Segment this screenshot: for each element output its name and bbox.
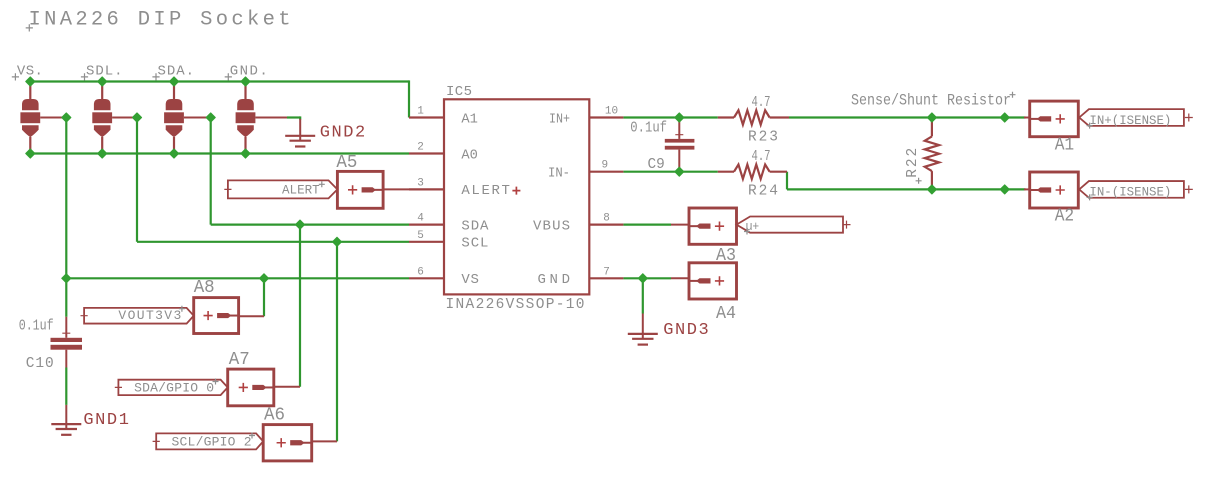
resistor R23 — [718, 110, 789, 124]
pin ALERT active marker + — [512, 187, 520, 195]
junction (245.5,153.5) — [241, 149, 250, 158]
svg-text:10: 10 — [605, 106, 618, 118]
svg-text:A8: A8 — [194, 278, 215, 298]
junction (642.8,278.3) — [638, 274, 647, 283]
wire SDA pin4 — [211, 224, 409, 226]
wire R24 elbow — [786, 172, 788, 190]
connector A8 — [194, 298, 239, 334]
pin 3 stub — [409, 188, 444, 190]
wire bottom rail to A0 — [30, 152, 409, 154]
connector A3 — [689, 208, 737, 244]
flag SDA/GPIO 0 outline — [118, 380, 227, 395]
wire C10 to GND1 — [65, 368, 67, 405]
capacitor C9 — [665, 118, 695, 172]
junction (1004.7,189.4) — [1000, 185, 1009, 194]
svg-text:R23: R23 — [748, 129, 778, 145]
svg-text:A7: A7 — [229, 350, 250, 370]
wire VS vertical — [65, 118, 67, 279]
junction (931.9,189.4) — [927, 185, 936, 194]
flag VOUT3V3 outline — [84, 308, 194, 324]
flag ALERT outline — [228, 180, 338, 198]
wire GND2 stub — [287, 116, 300, 118]
pin 4 stub — [409, 224, 444, 226]
wire pin8 VBUS — [623, 224, 671, 226]
pin 6 stub — [409, 277, 444, 279]
connector A1 — [1030, 101, 1079, 137]
junction (210.7,117.5) — [206, 113, 215, 122]
svg-text:GND2: GND2 — [320, 123, 366, 142]
svg-text:1: 1 — [417, 106, 424, 118]
wire A5 to pin3 — [383, 188, 409, 190]
wire R23 to A1 — [789, 116, 1026, 118]
connector A7 — [228, 369, 274, 406]
svg-text:2: 2 — [417, 142, 424, 154]
wire pin10 to C9 — [623, 116, 717, 118]
stub VS to junction — [40, 117, 66, 119]
svg-text:C9: C9 — [648, 157, 665, 173]
svg-text:Sense/Shunt Resistor: Sense/Shunt Resistor — [851, 91, 1011, 109]
pin 2 stub — [409, 152, 444, 154]
svg-text:5: 5 — [417, 230, 424, 242]
cross SDA flag — [115, 384, 122, 391]
svg-text:A5: A5 — [336, 153, 357, 173]
stub SDL to junction — [112, 117, 137, 119]
wire R24 to A2 — [787, 188, 1026, 190]
junction (931.9,117.5) — [927, 113, 936, 122]
origin cross SDA. — [152, 73, 159, 80]
svg-text:4.7: 4.7 — [752, 149, 771, 165]
pin 1 stub — [409, 116, 444, 118]
origin cross GND. — [225, 73, 232, 80]
title origin cross — [26, 24, 33, 31]
cross ALERT flag — [224, 186, 231, 193]
svg-text:VOUT3V3: VOUT3V3 — [118, 308, 181, 323]
wire into A1 — [1024, 117, 1030, 119]
wire to pin1 — [408, 80, 410, 117]
ground GND2 — [285, 119, 315, 147]
connector A2 — [1030, 172, 1079, 208]
svg-text:A2: A2 — [1055, 207, 1075, 227]
svg-text:ALERT: ALERT — [461, 183, 510, 199]
socket pin VS. — [20, 82, 40, 154]
wire A3 stub — [671, 224, 689, 226]
svg-text:7: 7 — [603, 266, 610, 278]
wire SCL pin5 — [137, 241, 409, 243]
wire pin7 GND — [623, 277, 671, 279]
wire A7 out — [274, 386, 300, 388]
junction (679.3,171.7) — [675, 167, 684, 176]
resistor R22 — [925, 118, 939, 190]
junction (66.3,278.3) — [62, 274, 71, 283]
svg-text:0.1uf: 0.1uf — [630, 121, 667, 137]
junction (174,153.5) — [169, 149, 178, 158]
socket pin SDA. — [164, 82, 184, 154]
wire SCL vertical from SDL — [136, 118, 138, 242]
junction (264,278.3) — [259, 274, 268, 283]
junction (30.3,81.5) — [26, 77, 35, 86]
wire into A2 — [1024, 188, 1030, 190]
svg-text:INA226 DIP Socket: INA226 DIP Socket — [29, 9, 291, 32]
connector A6 — [263, 425, 312, 461]
junction (102.2,153.5) — [98, 149, 107, 158]
svg-text:IN-: IN- — [548, 166, 570, 182]
wire pin9 to C9 — [623, 171, 717, 173]
svg-text:SDA/GPIO 0: SDA/GPIO 0 — [134, 381, 214, 396]
cross u+ pre — [744, 229, 750, 235]
svg-text:4.7: 4.7 — [752, 95, 771, 111]
svg-text:SCL/GPIO 2: SCL/GPIO 2 — [172, 434, 252, 449]
wire GND3 vertical — [642, 278, 644, 313]
origin cross SDL. — [81, 73, 88, 80]
stub SDA to junction — [184, 117, 211, 119]
ground GND1 — [51, 405, 81, 435]
svg-text:A0: A0 — [461, 147, 478, 163]
flag u+ outline — [737, 217, 844, 233]
svg-text:INA226VSSOP-10: INA226VSSOP-10 — [446, 297, 585, 313]
svg-text:SDA: SDA — [461, 218, 489, 234]
svg-text:6: 6 — [417, 266, 424, 278]
junction (30.3,153.5) — [26, 149, 35, 158]
wire A8 vertical — [263, 278, 265, 316]
junction (137,117.5) — [132, 113, 141, 122]
svg-text:IN-(ISENSE): IN-(ISENSE) — [1089, 185, 1171, 200]
junction (245.5,81.5) — [241, 77, 250, 86]
svg-text:R24: R24 — [748, 183, 778, 199]
cross SCL sup — [249, 433, 255, 439]
connector A4 — [689, 263, 737, 299]
origin cross VS. — [12, 73, 19, 80]
svg-text:4: 4 — [417, 213, 424, 225]
cross IN- flag right — [1185, 185, 1193, 193]
svg-text:VS: VS — [461, 272, 479, 288]
wire VS rail pin6 — [66, 277, 409, 279]
svg-text:VBUS: VBUS — [533, 218, 570, 234]
svg-text:0.1uf: 0.1uf — [19, 319, 54, 335]
flag IN+(ISENSE) outline — [1079, 109, 1184, 126]
cross R22 — [916, 178, 922, 184]
pin 10 stub — [589, 116, 623, 118]
pin 7 stub — [589, 277, 623, 279]
svg-text:A4: A4 — [716, 304, 736, 324]
capacitor C10 — [51, 317, 83, 368]
cross IN+ pre — [1087, 123, 1093, 129]
svg-text:GND: GND — [538, 272, 571, 288]
cross IN- pre — [1087, 194, 1093, 200]
cross IN+ flag right — [1185, 114, 1193, 122]
wire A6 vertical — [336, 242, 338, 442]
wire A7 vertical — [299, 225, 301, 387]
cross VOUT flag — [81, 312, 88, 319]
svg-text:R22: R22 — [905, 148, 921, 178]
junction (66.3,117.5) — [62, 113, 71, 122]
junction (1004.7,117.5) — [1000, 113, 1009, 122]
cross ALERT sup — [319, 181, 325, 187]
cross VOUT sup — [179, 306, 185, 312]
ground GND3 — [628, 314, 658, 345]
cross u+ right — [843, 221, 851, 229]
connector A5 — [337, 171, 383, 208]
resistor R24 — [718, 165, 787, 179]
wire A4 stub — [671, 277, 689, 279]
svg-text:3: 3 — [417, 177, 424, 189]
svg-text:A1: A1 — [461, 111, 478, 127]
svg-text:GND3: GND3 — [663, 321, 709, 340]
svg-text:ALERT: ALERT — [282, 183, 320, 198]
svg-text:GND.: GND. — [230, 64, 268, 80]
flag SCL/GPIO 2 outline — [156, 433, 263, 449]
junction (337,241.8) — [332, 237, 341, 246]
wire C10 top — [65, 278, 67, 317]
svg-text:SDL.: SDL. — [86, 64, 123, 80]
op IC5 INA226 box — [444, 99, 589, 294]
svg-text:9: 9 — [601, 160, 608, 172]
svg-text:C10: C10 — [26, 356, 54, 372]
pin 9 stub — [589, 171, 623, 173]
junction (102.2,81.5) — [98, 77, 107, 86]
junction (679.3,117.5) — [675, 113, 684, 122]
stub GND to GND2 — [255, 117, 287, 119]
junction (300,224.6) — [295, 220, 304, 229]
cross SDA sup — [213, 379, 219, 385]
flag IN-(ISENSE) outline — [1079, 181, 1184, 198]
pin 8 stub — [589, 224, 623, 226]
wire SDA vertical — [210, 118, 212, 225]
svg-text:A1: A1 — [1055, 136, 1075, 156]
socket pin SDL. — [92, 82, 112, 154]
svg-text:GND1: GND1 — [83, 411, 128, 430]
cross SCL flag — [153, 438, 160, 445]
wire top rail — [30, 80, 409, 82]
svg-text:IN+(ISENSE): IN+(ISENSE) — [1089, 113, 1171, 128]
junction (174,81.5) — [169, 77, 178, 86]
pin 5 stub — [409, 241, 444, 243]
cross sense sup — [1010, 92, 1016, 98]
svg-text:IC5: IC5 — [446, 84, 472, 100]
svg-text:SCL: SCL — [461, 236, 488, 252]
svg-text:SDA.: SDA. — [158, 64, 195, 80]
wire A8 out — [239, 315, 264, 317]
wire A6 out — [312, 440, 337, 442]
svg-text:8: 8 — [603, 213, 610, 225]
svg-text:IN+: IN+ — [549, 111, 570, 127]
svg-text:A6: A6 — [264, 406, 285, 426]
socket pin GND. — [236, 82, 256, 154]
